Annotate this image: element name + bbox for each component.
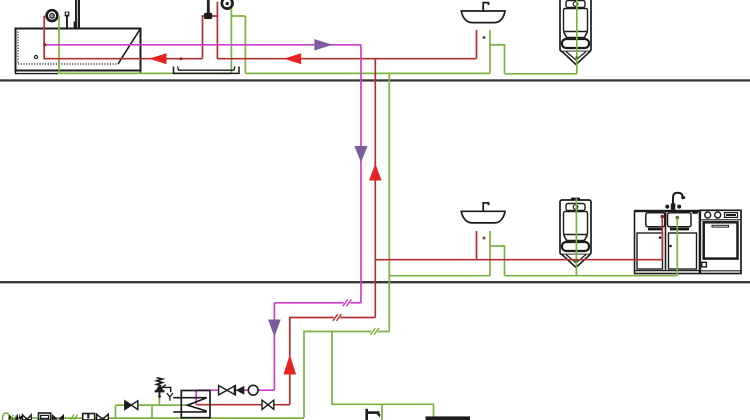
wire: hot stub from bathtub mixer and main level 1 left <box>44 16 202 59</box>
bypass valve <box>125 401 138 410</box>
wire: hot jog over shower mixer <box>203 2 218 59</box>
wire: circulation main level 1 <box>45 44 361 46</box>
water heater top (cut) <box>426 416 471 420</box>
flow arrow circulation level 1 right <box>314 39 332 50</box>
floor slab level 2 <box>0 281 750 283</box>
shutoff valve 1 <box>23 415 32 420</box>
flow arrow hot water level 1 left (near tub) <box>149 53 167 64</box>
wire: hot riser <box>374 59 376 318</box>
wire: cold stub to washbasin level 2 <box>489 231 491 276</box>
washbasin level 1 <box>461 3 505 23</box>
toilet level 1 (top cut) <box>560 0 591 65</box>
wire: hot stub to washbasin level 1 <box>476 30 478 59</box>
wire: cold stub to washbasin level 1 <box>489 30 491 73</box>
wire: cold jog at washbasin level 1 <box>490 45 505 74</box>
node: toilet level 1 <box>575 56 578 59</box>
kitchen faucet <box>665 193 685 210</box>
shower head (walk-in shower, cut at top) <box>222 0 233 9</box>
wire: cold drop to shower head <box>230 2 232 74</box>
pipe break symbol on magenta basement run <box>343 299 352 306</box>
wire: circulation riser <box>360 45 362 303</box>
washbasin level 2 <box>461 203 505 223</box>
shower mixer riser pipe <box>207 0 210 13</box>
shutoff valve 2 <box>97 414 109 420</box>
wire: cold jog over shower mixer <box>231 16 245 73</box>
wire: cold basement offset run <box>304 332 389 418</box>
node: washbasin level 2 <box>483 237 486 240</box>
pipe break symbol on cold service line <box>70 415 78 420</box>
wire: hot main level 1 right segment <box>217 58 476 60</box>
strainer / filter <box>83 414 95 420</box>
wire: cold stub to hose bib <box>381 404 383 420</box>
node: washbasin level 1 <box>483 36 486 39</box>
valve on hot water basement line <box>262 400 274 409</box>
wire: cold stub to kitchen sink <box>676 218 678 276</box>
wire: cold bypass loop to heat exchanger <box>116 405 191 418</box>
wire: cold main level 2 right segment <box>505 275 678 277</box>
label Y at safety valve outlet <box>167 393 173 401</box>
check valve on circulation line <box>234 386 245 395</box>
flow arrow hot riser up <box>369 164 382 181</box>
wire: circulation run to heat exchanger <box>196 390 274 404</box>
node: toilet level 2 <box>575 259 578 262</box>
node: kitchen cold stub <box>676 216 680 220</box>
entry valve (filled) <box>9 414 18 420</box>
flow arrow circulation basement down <box>268 320 281 338</box>
bathtub hand shower head <box>47 10 58 21</box>
wire: safety valve drain stub <box>158 392 160 405</box>
wire: cold main level 1 right segment <box>505 73 577 75</box>
FIXTURES <box>16 0 742 274</box>
toilet level 2 <box>560 198 591 268</box>
shower tray <box>174 67 240 74</box>
bathtub <box>16 29 141 74</box>
wire: cold main level 2 left segment <box>389 275 490 277</box>
wire: cold main level 1 mid segment <box>245 72 490 74</box>
valve on circulation line <box>219 386 236 395</box>
check valve (filled) <box>52 414 64 420</box>
wire: cold jog at washbasin level 2 <box>490 246 505 276</box>
pipe break symbol on red basement run <box>333 314 342 321</box>
wire: circulation basement offset run <box>274 303 361 390</box>
wire: cold stub to bathtub mixer <box>58 16 60 74</box>
hose bib / drain faucet <box>365 409 380 420</box>
safety relief valve <box>155 378 171 398</box>
floor slab level 1 <box>0 79 750 81</box>
flow arrow circulation riser down <box>354 146 367 163</box>
wire: cold stub to toilet level 1 <box>576 0 578 74</box>
flow arrow hot basement up <box>284 355 297 375</box>
dishwasher <box>700 210 741 273</box>
heat exchanger vessel <box>181 391 210 418</box>
kitchen sink cabinet <box>634 210 700 274</box>
wire: cold main level 1 left segment <box>59 72 231 74</box>
heat exchanger coil <box>173 398 207 412</box>
node: kitchen hot stub <box>661 215 665 219</box>
green slashes over entry <box>10 415 14 420</box>
small fitting marks <box>19 416 22 420</box>
pipe break symbol on green basement run <box>370 328 379 335</box>
node: hot line junction <box>180 57 183 60</box>
node: circulation start at tub <box>43 43 46 46</box>
wire: hot main level 2 <box>375 259 662 261</box>
wire: cold riser <box>388 73 390 331</box>
wire: hot stub to kitchen sink <box>661 216 663 260</box>
shower column at bathtub <box>74 0 80 29</box>
bathtub spout <box>65 12 70 29</box>
wire: hot basement offset run to heat exchanger <box>196 318 375 405</box>
shower mixer body <box>204 13 212 19</box>
wire: cold service main in basement <box>8 417 304 419</box>
wire: cold stub to toilet level 2 <box>575 198 577 275</box>
wire: hot stub to washbasin level 2 <box>476 231 478 260</box>
water meter <box>39 413 51 420</box>
flow arrow hot water level 1 left (near riser) <box>284 53 301 64</box>
cold water service entry arc <box>2 413 8 420</box>
wire: cold branch to water heater <box>332 332 434 417</box>
circulation pump <box>248 385 258 395</box>
